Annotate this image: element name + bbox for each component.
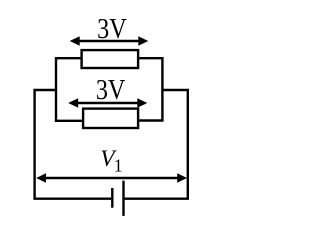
arrow (voltage across bottom resistor) (68, 98, 147, 108)
svg-text:3V: 3V (96, 73, 126, 105)
resistor R2 (bottom box) (83, 109, 138, 128)
wire (left of R1, inner-left vertical, left of R2) (56, 58, 83, 121)
arrow (V1 across battery loop) (36, 173, 187, 182)
resistor R1 (top box) (82, 50, 139, 68)
battery B1 negative plate (short bar) (111, 188, 113, 208)
svg-text:1: 1 (114, 155, 123, 175)
wire (left junction to outer-left vertical and bottom-left wire) (35, 90, 112, 199)
battery B1 positive plate (long bar) (122, 181, 124, 216)
wire (right junction to outer-right vertical and bottom-right wire) (125, 90, 188, 199)
label V1 (100, 146, 122, 176)
wire (right of R1, inner-right vertical, right of R2) (138, 58, 162, 120)
arrow (voltage across top resistor) (70, 36, 149, 46)
